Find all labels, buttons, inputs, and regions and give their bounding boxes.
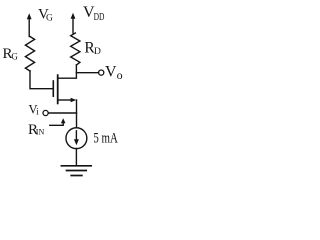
- svg-text:IN: IN: [36, 128, 45, 137]
- wire source lead: [58, 99, 72, 101]
- current source I1 arrowhead: [74, 139, 79, 145]
- wire source down to current source: [76, 100, 78, 128]
- svg-text:DD: DD: [94, 12, 105, 23]
- arrow RIN looking-in: [50, 122, 63, 125]
- ground bar 2: [67, 170, 87, 172]
- wire drain to RD node: [58, 65, 77, 78]
- svg-text:G: G: [11, 51, 18, 61]
- svg-text:5 mA: 5 mA: [93, 130, 118, 146]
- supply arrow VDD head: [71, 13, 76, 19]
- svg-text:i: i: [36, 107, 39, 117]
- wire RG bottom lead to gate: [30, 71, 53, 89]
- source arrowhead: [71, 98, 77, 103]
- wire Vi to source node: [48, 112, 76, 114]
- current source I1 arrow: [75, 131, 77, 140]
- ground bar 3: [71, 175, 82, 177]
- arrow RIN head: [61, 118, 66, 123]
- ground bar 1: [61, 165, 91, 167]
- supply arrow VG head: [27, 13, 32, 19]
- terminal Vo: [99, 70, 104, 75]
- resistor RG: [25, 37, 34, 72]
- supply arrow VDD: [72, 18, 74, 34]
- wire current source to ground: [75, 148, 77, 165]
- supply arrow VG: [28, 18, 30, 37]
- resistor RD: [71, 33, 80, 65]
- svg-text:o: o: [117, 68, 123, 82]
- svg-text:V: V: [105, 63, 117, 80]
- transistor Q1 gate bar: [52, 81, 54, 96]
- svg-text:G: G: [46, 14, 53, 24]
- current source I1 circle: [66, 128, 87, 149]
- terminal Vi: [43, 110, 48, 115]
- wire output node to Vo terminal: [76, 72, 98, 74]
- transistor Q1 channel bar: [57, 75, 59, 103]
- svg-text:D: D: [94, 47, 101, 57]
